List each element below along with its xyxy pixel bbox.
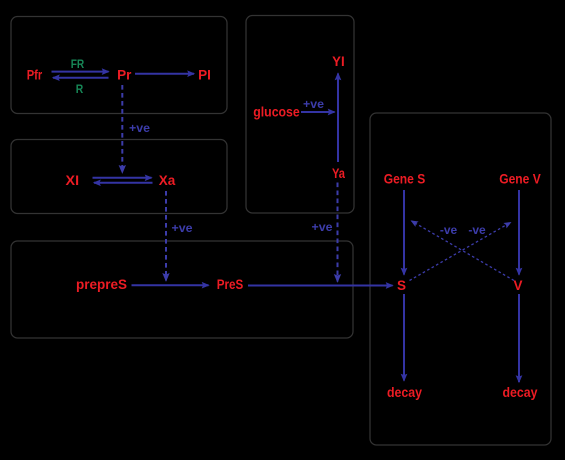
wire glucose to Ya-YI arrow — [301, 111, 335, 113]
svg-text:prepreS: prepreS — [76, 277, 127, 292]
svg-text:Ya: Ya — [332, 166, 345, 181]
wire Xa to prepreS arrow (dashed +ve) — [165, 191, 167, 281]
wire V to decay — [518, 294, 520, 382]
wire Pfr to Pr — [52, 71, 109, 73]
wire V represses Gene S (dashed -ve) — [412, 221, 515, 281]
wire Pr to Pfr — [53, 77, 109, 79]
svg-text:glucose: glucose — [253, 105, 300, 120]
wire Pr to PI — [135, 73, 194, 75]
wire Gene V to V — [518, 190, 520, 275]
svg-text:decay: decay — [387, 385, 422, 400]
svg-text:decay: decay — [503, 385, 538, 400]
svg-text:PI: PI — [198, 68, 211, 83]
svg-text:+ve: +ve — [312, 220, 333, 234]
wire S to decay — [403, 294, 405, 381]
svg-text:YI: YI — [332, 54, 345, 69]
svg-text:Pr: Pr — [117, 68, 132, 83]
wire Gene S to S — [403, 190, 405, 275]
wire S represses Gene V (dashed -ve) — [410, 223, 511, 281]
svg-text:-ve: -ve — [468, 223, 486, 237]
wire PreS to S — [248, 285, 393, 287]
svg-text:Gene V: Gene V — [499, 172, 541, 187]
svg-text:Pfr: Pfr — [27, 68, 43, 83]
svg-text:+ve: +ve — [129, 121, 150, 135]
svg-text:-ve: -ve — [440, 223, 458, 237]
wire Pr to Xa (dashed +ve) — [121, 85, 123, 173]
box phytochrome (top-left) — [11, 17, 227, 114]
svg-text:Gene S: Gene S — [384, 172, 426, 187]
svg-text:S: S — [397, 278, 406, 293]
svg-text:+ve: +ve — [172, 221, 193, 235]
wire Ya to YI — [337, 74, 339, 163]
wire Xa to XI — [94, 182, 153, 184]
wire XI to Xa — [93, 177, 152, 179]
svg-text:XI: XI — [66, 173, 80, 188]
svg-text:FR: FR — [71, 57, 85, 71]
svg-text:+ve: +ve — [303, 97, 324, 111]
wire prepreS to PreS — [132, 284, 209, 286]
wire Ya to PreS arrow (dashed +ve) — [337, 183, 339, 282]
svg-text:V: V — [513, 278, 522, 293]
svg-text:R: R — [76, 82, 84, 96]
box genes (right) — [370, 113, 551, 445]
box PreS (bottom-left) — [11, 241, 353, 338]
box X (middle-left) — [11, 140, 227, 214]
box Y (top-middle) — [246, 16, 354, 214]
svg-text:Xa: Xa — [159, 173, 176, 188]
svg-text:PreS: PreS — [217, 277, 244, 292]
